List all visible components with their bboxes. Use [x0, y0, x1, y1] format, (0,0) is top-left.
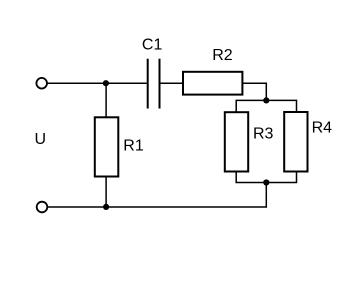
svg-text:C1: C1: [142, 37, 163, 54]
wire: resistor R2 right, right then down to node C: [242, 83, 266, 100]
wire top: terminal T1 to capacitor C1 left plate: [47, 82, 146, 84]
svg-text:R3: R3: [253, 126, 274, 143]
resistor R2 (horizontal box): [183, 72, 242, 95]
svg-text:U: U: [35, 131, 47, 148]
label R3: [253, 126, 274, 143]
resistor R1 (vertical box): [95, 117, 119, 176]
label R4: [312, 120, 333, 137]
svg-text:R4: R4: [312, 120, 333, 137]
svg-text:R2: R2: [212, 47, 233, 64]
wire: node D down then left along bottom to terminal T2: [48, 183, 267, 208]
wire: resistor R1 bottom down to node B: [105, 177, 107, 208]
label U (source voltage): [35, 131, 47, 148]
capacitor C1 (two vertical plates): [148, 59, 160, 109]
wire: top bus of parallel pair R3/R4: [236, 100, 296, 112]
wire: node A down to resistor R1 top: [105, 83, 107, 118]
terminal T1 (top left open circle): [36, 78, 47, 89]
resistor R4 (vertical box): [284, 112, 307, 172]
svg-text:R1: R1: [123, 137, 144, 154]
label C1: [142, 37, 163, 54]
wire: capacitor C1 right plate to resistor R2 left: [161, 82, 184, 84]
label R1: [123, 137, 144, 154]
label R2: [212, 47, 233, 64]
resistor R3 (vertical box): [225, 112, 248, 171]
node A (junction dot on top wire above R1): [103, 80, 109, 86]
node D (junction dot on bottom bus): [263, 179, 269, 185]
wire: bottom bus of parallel pair R3/R4: [236, 172, 296, 183]
node B (junction dot on bottom wire below R1): [103, 204, 109, 210]
terminal T2 (bottom left open circle): [37, 202, 48, 213]
node C (junction dot on top bus): [263, 97, 269, 103]
